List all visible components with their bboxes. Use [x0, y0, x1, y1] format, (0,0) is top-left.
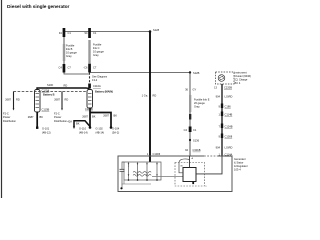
svg-text:link B: link B — [66, 47, 73, 51]
svg-text:2687: 2687 — [28, 115, 34, 119]
voltage regulator dashed box — [175, 163, 205, 187]
fusible link B element — [63, 44, 65, 61]
svg-text:C220B: C220B — [224, 85, 232, 89]
svg-text:Fusible: Fusible — [66, 44, 75, 48]
svg-text:Fusible: Fusible — [93, 43, 102, 47]
svg-text:& Stator: & Stator — [234, 160, 244, 164]
wire joining link B to link C column — [64, 73, 90, 75]
fusible link C element — [88, 40, 90, 63]
svg-text:2687: 2687 — [103, 114, 109, 118]
capacitor — [122, 162, 124, 169]
svg-text:C115B: C115B — [42, 108, 50, 112]
dashed battery bus — [14, 91, 88, 93]
svg-text:13-2: 13-2 — [92, 78, 98, 82]
svg-text:Power: Power — [54, 115, 61, 119]
wire rectifier to regulator — [152, 175, 183, 177]
generator output wire 1 Ga — [149, 32, 151, 163]
regulator ground stub — [192, 182, 194, 185]
svg-text:C110A: C110A — [93, 84, 101, 88]
wire indicator to generator 904 LG/RD — [221, 84, 223, 156]
svg-text:2687: 2687 — [54, 98, 60, 102]
svg-text:BC 4: BC 4 — [235, 81, 241, 85]
connector C4/C1 on link E column — [189, 127, 192, 133]
svg-text:See Diagram: See Diagram — [92, 74, 107, 78]
svg-text:(4B-12): (4B-12) — [42, 131, 51, 135]
svg-text:S10F: S10F — [47, 83, 54, 87]
connector C186 — [221, 104, 223, 109]
ground G-101 — [36, 127, 38, 129]
svg-text:Instrument: Instrument — [235, 71, 248, 75]
svg-text:S128: S128 — [153, 28, 160, 32]
svg-text:20 gauge: 20 gauge — [194, 101, 205, 105]
fusible link E element — [189, 95, 191, 112]
connector bar below link E — [189, 114, 191, 120]
diode strand 1 — [128, 162, 130, 180]
connector bar C110A — [88, 84, 91, 89]
svg-text:904: 904 — [216, 146, 221, 150]
svg-text:GY: GY — [193, 88, 197, 92]
node S136 — [189, 139, 191, 141]
svg-text:Cluster (9046): Cluster (9046) — [235, 74, 252, 78]
svg-text:2687: 2687 — [5, 98, 11, 102]
svg-text:F2-C: F2-C — [3, 112, 9, 116]
svg-text:F2-C: F2-C — [54, 112, 60, 116]
connector bar C1 top of fusible link B — [63, 28, 66, 37]
svg-text:(4B-14): (4B-14) — [96, 131, 105, 135]
svg-text:BK: BK — [40, 115, 44, 119]
svg-text:C1: C1 — [93, 31, 97, 35]
svg-text:C1008: C1008 — [225, 135, 233, 139]
svg-text:G-110: G-110 — [79, 127, 87, 131]
regulator block — [183, 168, 196, 182]
wire branch to ground G-104 — [90, 113, 111, 128]
svg-text:G-102: G-102 — [96, 127, 104, 131]
svg-text:RD: RD — [65, 98, 69, 102]
connector bar bottom of fusible link B — [63, 61, 65, 64]
svg-text:Generator: Generator — [234, 157, 246, 161]
svg-text:link C: link C — [93, 46, 100, 50]
svg-text:42A: 42A — [67, 120, 72, 124]
svg-text:10 gauge: 10 gauge — [93, 50, 104, 54]
wire field sense arc — [179, 159, 190, 173]
rectifier assembly box — [124, 162, 161, 180]
svg-text:Battery (MAIN): Battery (MAIN) — [95, 90, 113, 94]
svg-text:C124B: C124B — [225, 125, 233, 129]
stator windings — [133, 171, 151, 173]
svg-text:C7: C7 — [68, 66, 72, 70]
wire battery B to ground — [36, 112, 38, 127]
svg-text:S136: S136 — [193, 139, 200, 143]
svg-text:BK: BK — [114, 114, 118, 118]
svg-text:-C6: -C6 — [83, 66, 88, 70]
svg-text:Distribution: Distribution — [54, 119, 68, 123]
svg-text:C110B: C110B — [85, 107, 93, 111]
charge indicator lamp — [218, 75, 225, 82]
node S12B — [189, 71, 191, 73]
svg-text:C1006: C1006 — [153, 152, 161, 156]
diode strand 2 — [137, 162, 139, 180]
wire bracket to G-110 arrow — [74, 121, 90, 127]
svg-text:LG/RD: LG/RD — [225, 95, 233, 99]
connector bar top of fusible link C — [88, 28, 91, 38]
svg-text:BK: BK — [76, 122, 80, 126]
node S128 — [149, 30, 152, 33]
instrument cluster box — [216, 72, 235, 84]
svg-text:Battery B: Battery B — [43, 92, 55, 96]
svg-text:LG/RD: LG/RD — [225, 146, 233, 150]
svg-text:C7: C7 — [93, 66, 97, 70]
svg-text:Power: Power — [3, 115, 10, 119]
svg-text:C1: C1 — [68, 31, 72, 35]
connector bar bottom of fusible link C — [88, 64, 91, 73]
svg-text:Gray: Gray — [93, 53, 99, 57]
svg-text:RD: RD — [16, 98, 20, 102]
diode strand 4 — [156, 162, 158, 180]
connector C114B — [221, 112, 223, 117]
svg-text:2687: 2687 — [82, 115, 88, 119]
svg-text:BK: BK — [92, 115, 96, 119]
wire fusible link E column — [189, 73, 191, 98]
svg-text:G-104: G-104 — [112, 127, 120, 131]
diode strand 3 — [146, 162, 148, 180]
svg-text:C114B: C114B — [225, 113, 233, 117]
svg-text:904: 904 — [216, 95, 221, 99]
svg-text:C1: C1 — [193, 128, 197, 132]
svg-text:103-4: 103-4 — [234, 167, 241, 171]
svg-text:10 gauge: 10 gauge — [66, 51, 77, 55]
wire to power distribution mid — [61, 92, 63, 110]
svg-text:& Regulator: & Regulator — [234, 164, 248, 168]
svg-text:C301B: C301B — [193, 148, 201, 152]
svg-text:Distribution: Distribution — [3, 119, 17, 123]
generator box — [118, 156, 232, 192]
connector C124B — [221, 124, 223, 129]
ground node in generator — [120, 187, 122, 189]
svg-text:Diesel with single generator: Diesel with single generator — [7, 4, 69, 10]
svg-text:(5A-2): (5A-2) — [112, 131, 119, 135]
svg-text:Gray: Gray — [194, 105, 200, 109]
svg-text:(C) Charge: (C) Charge — [235, 78, 248, 82]
svg-text:(4B-14): (4B-14) — [79, 131, 88, 135]
svg-text:Fusible link E: Fusible link E — [194, 98, 210, 102]
battery MAIN — [87, 90, 93, 109]
svg-text:C186: C186 — [225, 105, 232, 109]
wire battery MAIN to ground G-102 — [89, 108, 91, 127]
wire top bus — [64, 31, 151, 33]
wire A terminal into regulator — [189, 156, 191, 168]
wire to power distribution left — [13, 92, 15, 110]
wire mid bus to S12B — [90, 72, 191, 74]
svg-text:1 Ga.: 1 Ga. — [142, 94, 149, 98]
svg-text:S12B: S12B — [193, 71, 200, 75]
svg-text:RD: RD — [64, 83, 68, 87]
connector C1008 — [221, 134, 223, 139]
svg-text:G-101: G-101 — [42, 127, 50, 131]
wire I terminal 904 into regulator — [196, 156, 222, 174]
battery B — [35, 90, 41, 113]
svg-text:C4: C4 — [184, 128, 188, 132]
wire — [63, 37, 65, 44]
svg-text:C4: C4 — [58, 66, 62, 70]
left page border line — [1, 0, 3, 198]
svg-text:Gray: Gray — [66, 54, 72, 58]
svg-text:RD: RD — [153, 94, 157, 98]
wire down from link C — [89, 73, 91, 85]
